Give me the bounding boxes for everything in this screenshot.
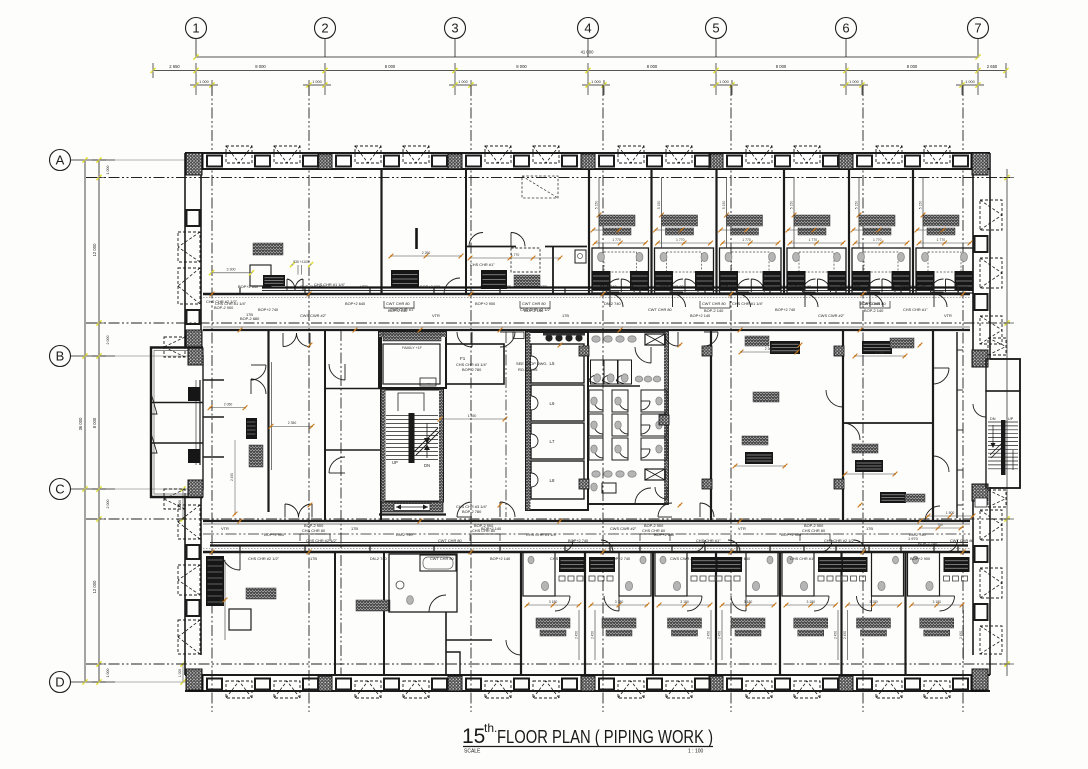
wall pier bbox=[318, 676, 332, 691]
stair shaft wall bbox=[382, 390, 444, 502]
bottom basin row bbox=[944, 576, 950, 581]
svg-text:CWT CHR 80: CWT CHR 80 bbox=[660, 284, 685, 289]
left wing pier top bbox=[188, 348, 203, 365]
window canopy bbox=[355, 681, 381, 698]
basin bbox=[898, 252, 905, 261]
svg-text:17B: 17B bbox=[310, 556, 317, 561]
window canopy bbox=[618, 681, 644, 698]
svg-text:1 770: 1 770 bbox=[676, 238, 685, 242]
svg-text:BOP+2 900: BOP+2 900 bbox=[264, 532, 285, 537]
bottom room label bbox=[857, 618, 891, 628]
bottom basin row bbox=[818, 576, 824, 581]
fan coil unit left bbox=[719, 271, 738, 291]
piping tick row 2 bbox=[917, 229, 943, 231]
svg-text:1 000: 1 000 bbox=[849, 80, 859, 84]
window canopy bbox=[980, 626, 1002, 654]
window bbox=[823, 679, 838, 690]
stair up arrow bbox=[426, 423, 428, 440]
bottom room divider wall bbox=[652, 552, 654, 675]
stair exit strip bbox=[382, 502, 444, 512]
window bbox=[727, 679, 742, 690]
window bbox=[647, 156, 662, 167]
svg-text:B: B bbox=[56, 349, 65, 364]
mid room door 2 bbox=[329, 457, 345, 473]
wall pier bbox=[972, 350, 988, 367]
window canopy bbox=[794, 146, 820, 163]
grid bubble C bbox=[50, 479, 71, 500]
bottom bathroom shower head bbox=[787, 556, 793, 564]
stair stringer bbox=[409, 413, 415, 463]
left mid stub 2 bbox=[203, 416, 224, 418]
right wing door bbox=[973, 404, 986, 417]
svg-text:BOP-2 880: BOP-2 880 bbox=[240, 316, 260, 321]
svg-text:CWS CWR #2": CWS CWR #2" bbox=[818, 313, 845, 318]
stair treads bbox=[386, 415, 438, 417]
right wing stair arrows bbox=[992, 425, 994, 445]
basin bbox=[961, 252, 968, 261]
toilet lobby doors bottom bbox=[658, 503, 672, 517]
bottom bath door bbox=[857, 596, 872, 611]
bathroom door bbox=[736, 279, 749, 292]
svg-text:C: C bbox=[55, 482, 64, 497]
window bbox=[514, 156, 529, 167]
window canopy bbox=[746, 681, 772, 698]
bottom room label bbox=[920, 618, 954, 628]
bottom room label bbox=[794, 618, 828, 628]
bathroom door bbox=[931, 279, 944, 292]
lower annotation 2 bbox=[855, 460, 883, 472]
svg-text:CHS CHR #2 1/2": CHS CHR #2 1/2" bbox=[520, 307, 552, 312]
svg-text:exp: exp bbox=[426, 382, 431, 386]
left mid door 1 bbox=[251, 365, 266, 380]
window canopy bbox=[876, 681, 902, 698]
right vertical dimension line bbox=[1006, 169, 1008, 676]
window canopy bbox=[876, 146, 902, 163]
piping tick row 2 bbox=[593, 229, 619, 231]
window canopy bbox=[533, 681, 559, 698]
svg-text:BOP-2 900: BOP-2 900 bbox=[644, 523, 664, 528]
svg-text:CHS CHR #2 1/2": CHS CHR #2 1/2" bbox=[824, 538, 856, 543]
bottom dim row bbox=[912, 604, 963, 606]
svg-text:5 150: 5 150 bbox=[855, 201, 859, 210]
fan coil unit right bbox=[763, 271, 782, 291]
top exterior wall bbox=[185, 153, 990, 169]
core corridor door bottom bbox=[457, 502, 472, 517]
fan coil unit left bbox=[916, 271, 935, 291]
big room fcu 1 bbox=[770, 341, 800, 354]
svg-text:4: 4 bbox=[584, 21, 591, 36]
svg-text:BOP+2 900: BOP+2 900 bbox=[420, 284, 441, 289]
left wall fcu slab 1 bbox=[188, 387, 200, 401]
wall pier bbox=[581, 676, 595, 691]
right corridor doors bbox=[933, 368, 949, 384]
svg-text:DN: DN bbox=[990, 417, 996, 421]
svg-text:BOP-2 740: BOP-2 740 bbox=[918, 541, 938, 546]
window canopy bbox=[178, 268, 200, 304]
svg-text:L8: L8 bbox=[550, 478, 555, 483]
wall pier bbox=[189, 676, 203, 691]
svg-text:2: 2 bbox=[321, 21, 328, 36]
bottom bathroom shower head bbox=[893, 556, 899, 564]
big room door 2 bbox=[843, 423, 860, 440]
svg-text:BOP+2 640: BOP+2 640 bbox=[238, 284, 259, 289]
svg-text:UP: UP bbox=[392, 460, 398, 465]
bottom room label bbox=[602, 618, 636, 628]
lower annotation 1 bbox=[745, 452, 773, 464]
bottom dim row bbox=[722, 604, 774, 606]
toilet south wall bbox=[588, 503, 668, 505]
svg-text:2 450: 2 450 bbox=[843, 631, 847, 639]
svg-text:2 650: 2 650 bbox=[987, 64, 998, 69]
svg-text:1 770: 1 770 bbox=[742, 238, 751, 242]
bottom bathroom shower head bbox=[660, 556, 666, 564]
core bottom wall bbox=[379, 513, 446, 515]
wing side note bbox=[975, 498, 987, 507]
room entry door to corridor bbox=[738, 294, 751, 307]
piping tick row 2 bbox=[721, 229, 747, 231]
sub dimensions 1 000 bbox=[190, 84, 218, 86]
lift L7 bbox=[531, 423, 584, 459]
svg-text:2 000: 2 000 bbox=[106, 336, 110, 345]
svg-text:DN-2 740: DN-2 740 bbox=[370, 556, 387, 561]
right exterior wall lower bbox=[989, 487, 991, 675]
svg-text:DN-2 740: DN-2 740 bbox=[600, 284, 617, 289]
bottom riser bbox=[721, 610, 723, 660]
svg-text:VTR: VTR bbox=[432, 313, 440, 318]
bottom left big room wall bbox=[334, 552, 336, 675]
window bbox=[432, 679, 447, 690]
left mid stub 1 bbox=[203, 379, 224, 381]
pipe leader brackets lower bbox=[300, 534, 330, 541]
toilet cubicles right column bbox=[641, 390, 667, 412]
lower corridor north wall bbox=[203, 520, 970, 522]
room label bbox=[599, 215, 635, 226]
toilet mid divider bbox=[588, 385, 640, 387]
piping tick row 2 bbox=[853, 229, 879, 231]
bottom bath door bbox=[687, 596, 702, 611]
svg-text:3: 3 bbox=[451, 21, 458, 36]
corridor C right annotations bbox=[928, 515, 973, 517]
svg-text:2 450: 2 450 bbox=[230, 473, 234, 481]
svg-text:CHS CHR #2 1/2": CHS CHR #2 1/2" bbox=[248, 556, 280, 561]
piping tick row 2 bbox=[788, 229, 814, 231]
mid room divider 1 bbox=[325, 388, 381, 390]
fan coil unit right bbox=[892, 271, 911, 291]
svg-text:41 000: 41 000 bbox=[581, 50, 594, 55]
corner pier bbox=[186, 153, 202, 175]
suite dim 935 bbox=[297, 265, 299, 275]
window canopy bbox=[226, 681, 252, 698]
vertical grid line bbox=[211, 85, 213, 712]
service label bbox=[514, 275, 540, 287]
bottom riser bbox=[847, 610, 849, 660]
grid bubble 7 bbox=[968, 18, 989, 39]
piping main upper corridor bbox=[262, 286, 968, 288]
svg-text:1 : 100: 1 : 100 bbox=[688, 749, 704, 755]
mid room wall bbox=[324, 330, 326, 521]
upper corridor north wall bbox=[203, 293, 970, 295]
svg-text:1 000: 1 000 bbox=[199, 80, 209, 84]
window canopy bbox=[178, 565, 200, 595]
window canopy bbox=[403, 681, 429, 698]
window bbox=[599, 156, 614, 167]
window bbox=[599, 679, 614, 690]
bottom room divider wall bbox=[779, 552, 781, 675]
room2 sink bbox=[396, 581, 404, 589]
grid bubble D bbox=[50, 672, 71, 693]
stair break line bbox=[414, 428, 438, 452]
lift L5 bbox=[531, 344, 584, 383]
acc box bbox=[513, 332, 524, 339]
grid bubble 6 bbox=[836, 18, 857, 39]
svg-text:FLOOR PLAN ( PIPING WORK ): FLOOR PLAN ( PIPING WORK ) bbox=[497, 727, 713, 747]
svg-text:BOP-2 780: BOP-2 780 bbox=[462, 367, 482, 372]
bottom dim row bbox=[527, 604, 579, 606]
window bbox=[207, 156, 222, 167]
svg-text:DN: DN bbox=[424, 463, 430, 468]
grid bubble 5 bbox=[706, 18, 727, 39]
left wing pier bottom bbox=[188, 480, 203, 497]
bottom room entry door to corridor bbox=[561, 540, 573, 552]
bottom fcu bbox=[589, 557, 615, 572]
lift L8 bbox=[531, 461, 584, 499]
piping dimension row bbox=[658, 242, 711, 244]
toilet bbox=[725, 252, 732, 261]
room entry door to corridor bbox=[870, 294, 883, 307]
svg-text:th.: th. bbox=[484, 721, 497, 735]
svg-text:BOP+2 140: BOP+2 140 bbox=[720, 284, 741, 289]
bottom room label bbox=[731, 618, 765, 628]
toilet entry door top bbox=[635, 347, 651, 363]
room label bbox=[859, 215, 895, 226]
corner pier bbox=[972, 153, 988, 175]
fan coil unit right bbox=[695, 271, 714, 291]
suite dim 3 300 bbox=[212, 272, 252, 274]
right wing canopy top bbox=[988, 338, 1006, 355]
svg-text:CHS CHR 80: CHS CHR 80 bbox=[302, 528, 326, 533]
window canopy bbox=[485, 681, 511, 698]
suite fan coil unit bbox=[263, 275, 285, 286]
window canopy bbox=[274, 681, 300, 698]
svg-text:CHS CHR #1 1/4": CHS CHR #1 1/4" bbox=[526, 532, 558, 537]
svg-text:2 450: 2 450 bbox=[575, 631, 579, 639]
duct shaft bottom bbox=[645, 469, 665, 480]
window canopy bbox=[178, 505, 200, 539]
piping dimension row bbox=[855, 242, 907, 244]
svg-text:1 770: 1 770 bbox=[612, 238, 621, 242]
window bbox=[562, 156, 577, 167]
toilet block walls bbox=[588, 332, 668, 504]
room label bbox=[727, 215, 763, 226]
svg-text:BOP+2 740: BOP+2 740 bbox=[775, 307, 796, 312]
bottom room label bbox=[536, 618, 570, 628]
left vertical dimension line 36 000 bbox=[84, 160, 86, 682]
svg-text:12 000: 12 000 bbox=[92, 580, 97, 593]
pantry double door bbox=[469, 233, 483, 247]
svg-text:L6: L6 bbox=[550, 401, 555, 406]
lift bank wall bbox=[526, 332, 588, 510]
pantry wall bbox=[466, 246, 516, 248]
left wing canopy bottom bbox=[164, 489, 185, 509]
bottom room entry door to corridor bbox=[820, 540, 832, 552]
svg-text:8 000: 8 000 bbox=[647, 64, 658, 69]
upper corridor south wall bbox=[203, 329, 970, 331]
window canopy bbox=[794, 681, 820, 698]
fan coil unit left bbox=[787, 271, 806, 291]
svg-text:15: 15 bbox=[462, 725, 485, 748]
bathroom bbox=[655, 248, 714, 293]
left mid vertical dim bbox=[234, 440, 236, 514]
window bbox=[775, 679, 790, 690]
left mid label bbox=[249, 445, 263, 467]
room2 door bbox=[429, 595, 446, 612]
lower corridor centre line bbox=[203, 533, 970, 535]
piping main upper drops bbox=[239, 288, 241, 295]
svg-text:BOP+2 140: BOP+2 140 bbox=[481, 526, 502, 531]
left vertical dimension line segments bbox=[98, 160, 100, 682]
toilet basin row top bbox=[592, 336, 600, 342]
bottom dim row bbox=[848, 604, 900, 606]
svg-text:L5: L5 bbox=[550, 361, 555, 366]
basin bbox=[769, 252, 776, 261]
svg-text:1 780: 1 780 bbox=[876, 351, 885, 355]
svg-text:CHS CHR #1 1/4": CHS CHR #1 1/4" bbox=[550, 556, 582, 561]
bottom bathroom bbox=[782, 552, 814, 596]
bottom bathroom toilet bbox=[673, 581, 680, 590]
window canopy bbox=[924, 146, 950, 163]
window canopy bbox=[226, 146, 252, 163]
svg-text:2 450: 2 450 bbox=[718, 631, 722, 639]
room divider wall bbox=[715, 169, 717, 294]
bottom basin row bbox=[716, 576, 722, 581]
window bbox=[975, 546, 988, 562]
bathroom bbox=[720, 248, 782, 293]
bottom bathroom toilet bbox=[752, 581, 759, 590]
yellow scatter ticks bbox=[210, 292, 215, 297]
room divider wall bbox=[783, 169, 785, 294]
grid bubble A bbox=[50, 150, 71, 171]
window canopy bbox=[980, 200, 1002, 230]
orange ticks scatter bbox=[238, 328, 243, 333]
bottom riser bbox=[837, 610, 839, 660]
bottom room entry door to corridor bbox=[854, 540, 866, 552]
svg-text:3 180: 3 180 bbox=[680, 600, 689, 604]
big room labels bbox=[246, 588, 276, 599]
window bbox=[384, 156, 399, 167]
horizontal grid line B bbox=[86, 322, 1010, 324]
room2 inner wall bbox=[445, 612, 447, 675]
lift L6 bbox=[531, 385, 584, 421]
lift door notches bbox=[531, 356, 538, 370]
right rooms divider bbox=[843, 422, 933, 424]
fan coil unit left bbox=[654, 271, 673, 291]
window bbox=[695, 679, 710, 690]
grid bubble 2 bbox=[315, 18, 336, 39]
right corridor pipe bbox=[956, 332, 958, 518]
svg-text:F1: F1 bbox=[460, 356, 466, 361]
riser pipe bbox=[661, 177, 663, 248]
svg-text:BOP+2 900: BOP+2 900 bbox=[475, 301, 496, 306]
svg-text:CHS CHR #1 1/4": CHS CHR #1 1/4" bbox=[780, 284, 812, 289]
svg-text:3 180: 3 180 bbox=[549, 600, 558, 604]
svg-text:1 000: 1 000 bbox=[458, 80, 468, 84]
piping tick row 2 bbox=[656, 229, 682, 231]
svg-text:2 450: 2 450 bbox=[591, 631, 595, 639]
bottom basin row bbox=[842, 576, 848, 581]
fan coil unit right bbox=[828, 271, 847, 291]
service wall 2 bbox=[552, 247, 554, 295]
wall pier bbox=[189, 154, 203, 169]
big room door bbox=[223, 558, 240, 570]
lobby door top bbox=[283, 333, 297, 347]
column marker bbox=[702, 346, 712, 356]
left wall fcu slab 2 bbox=[188, 449, 200, 463]
bottom bathroom toilet bbox=[800, 581, 807, 590]
vertical grid line bbox=[862, 85, 864, 712]
core corridor dim bbox=[440, 418, 505, 420]
svg-text:2 050: 2 050 bbox=[224, 403, 233, 407]
core lobby label bbox=[383, 333, 441, 341]
service wall bbox=[465, 169, 467, 294]
svg-text:SCALE: SCALE bbox=[464, 749, 481, 755]
right wing stair wall bbox=[986, 391, 1020, 488]
svg-text:CWT CHR 80: CWT CHR 80 bbox=[438, 538, 463, 543]
svg-text:DN-2 740: DN-2 740 bbox=[396, 532, 413, 537]
big room white box bbox=[229, 609, 251, 630]
window bbox=[384, 679, 399, 690]
svg-text:BOP+2 640: BOP+2 640 bbox=[730, 556, 751, 561]
svg-text:36 000: 36 000 bbox=[78, 417, 83, 430]
service riser bar bbox=[415, 228, 418, 249]
core lobby wall bbox=[379, 332, 446, 388]
bottom riser bbox=[578, 610, 580, 660]
svg-text:3 180: 3 180 bbox=[807, 600, 816, 604]
left exterior wall upper bbox=[184, 153, 186, 347]
svg-text:5: 5 bbox=[712, 21, 719, 36]
svg-text:CHS CHR #1": CHS CHR #1" bbox=[300, 284, 325, 289]
sink bbox=[575, 250, 586, 263]
right wing stringer bbox=[1001, 420, 1006, 475]
suite double swing door bbox=[287, 279, 295, 290]
svg-text:CWS CWR #2": CWS CWR #2" bbox=[610, 526, 637, 531]
horizontal grid line A bbox=[86, 177, 1010, 179]
window bbox=[975, 236, 988, 252]
svg-text:CHS CHR #1": CHS CHR #1" bbox=[903, 307, 928, 312]
room2 toilet bbox=[407, 596, 414, 605]
sub dim D near wall bbox=[182, 664, 184, 682]
bottom bath door bbox=[604, 596, 619, 611]
window bbox=[255, 156, 270, 167]
window bbox=[857, 679, 872, 690]
wall pier bbox=[839, 676, 853, 691]
lift lobby grid line bbox=[505, 332, 507, 517]
riser pipe bbox=[598, 177, 600, 248]
svg-text:1 000: 1 000 bbox=[719, 80, 729, 84]
bottom bath door bbox=[731, 596, 746, 611]
lower corridor south wall bbox=[203, 551, 970, 553]
window bbox=[975, 294, 988, 310]
left wing door flap 2 bbox=[151, 433, 157, 453]
bottom riser bbox=[710, 610, 712, 660]
big room fcu stack bbox=[206, 556, 224, 606]
bottom room divider wall bbox=[584, 552, 586, 675]
room3 wall bbox=[520, 552, 522, 675]
toilet cubicle row bbox=[591, 360, 605, 384]
toilet bbox=[922, 252, 929, 261]
bottom bath door bbox=[555, 596, 570, 611]
window canopy bbox=[666, 681, 692, 698]
cleaner cubicle bbox=[591, 483, 597, 491]
